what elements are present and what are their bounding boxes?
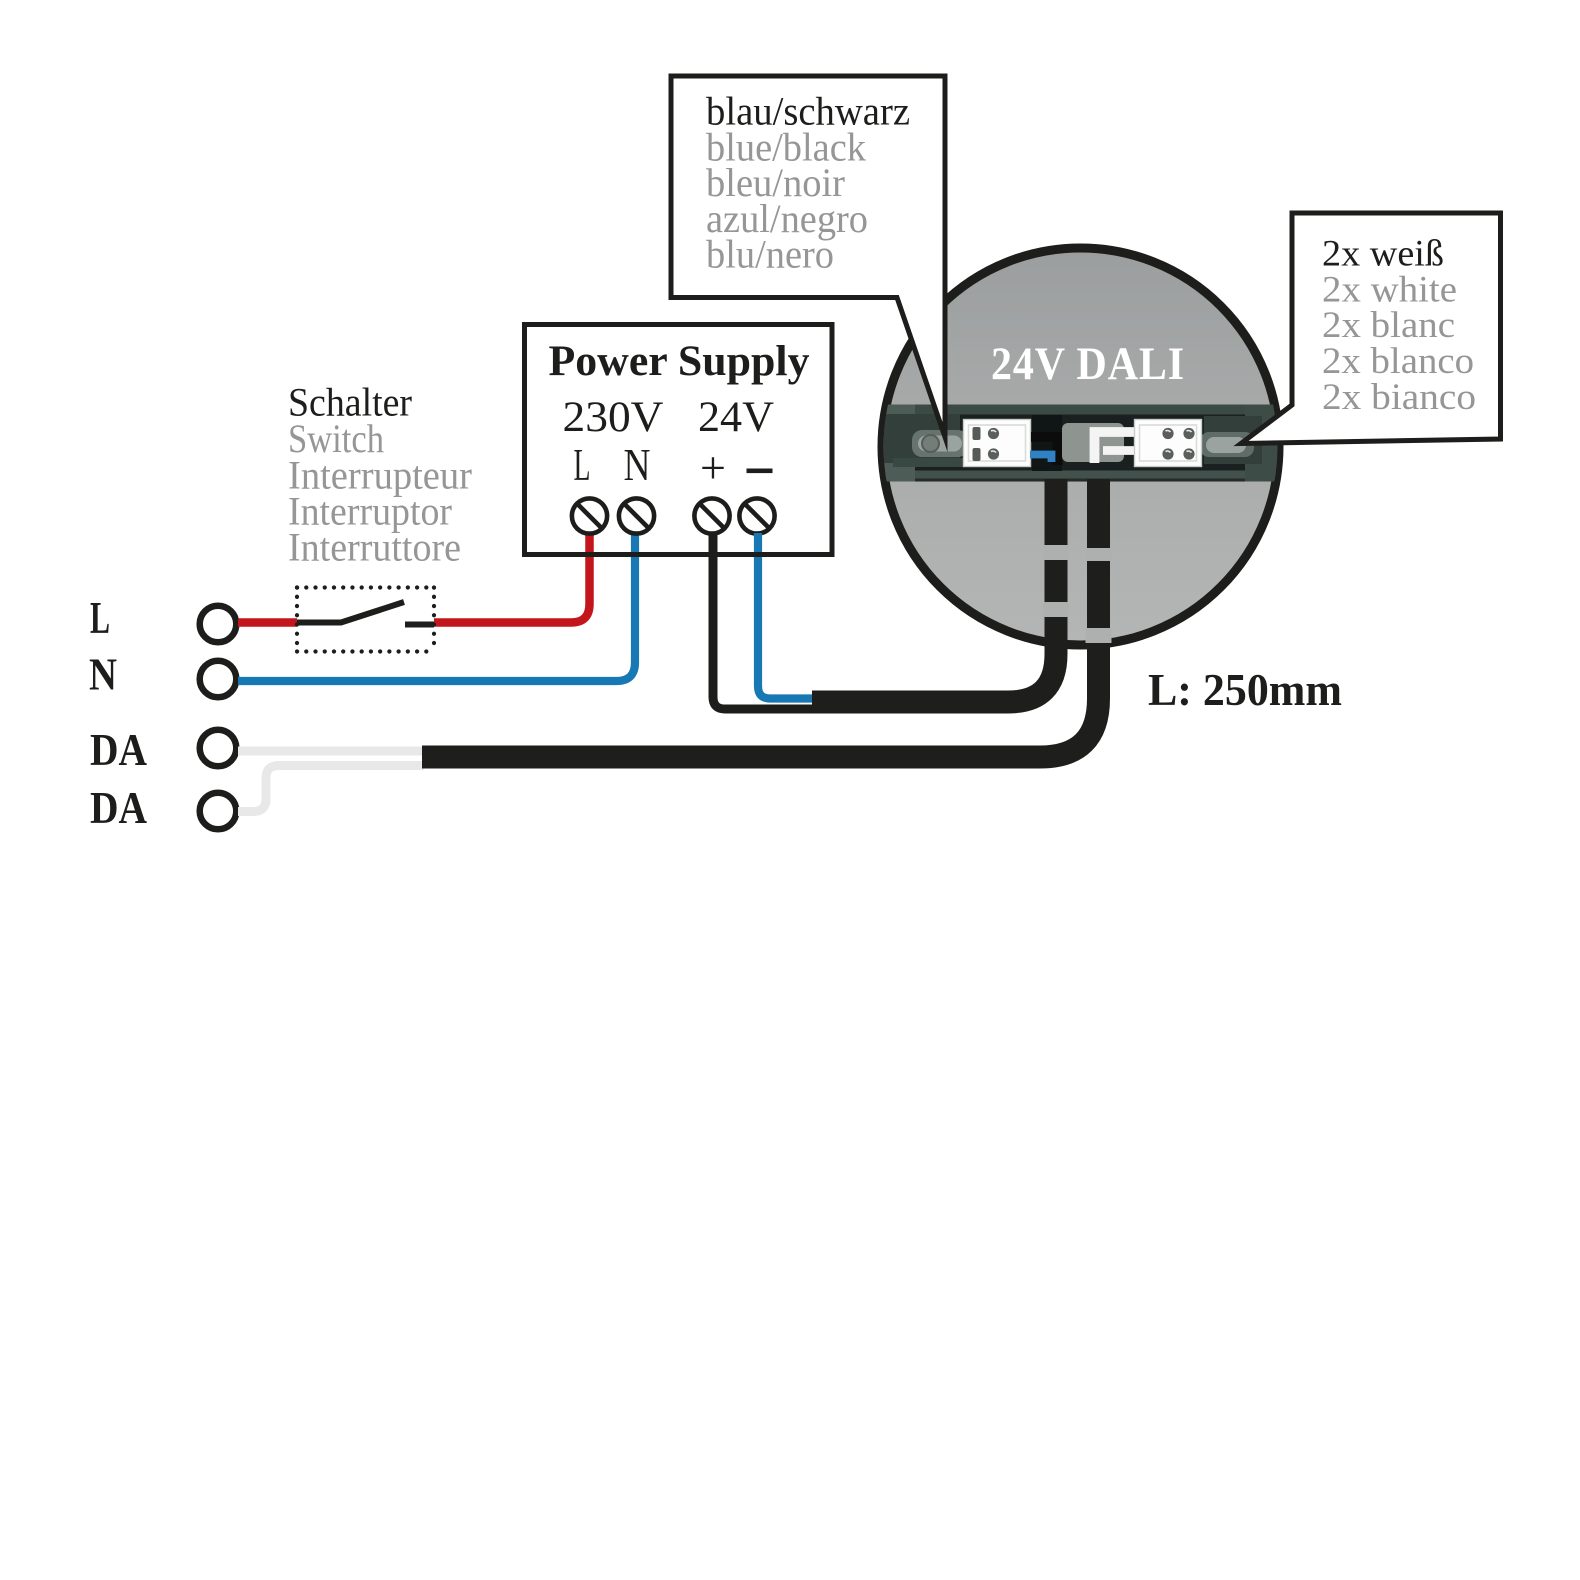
driver bar photo <box>877 405 1288 482</box>
svg-text:blu/nero: blu/nero <box>706 232 834 277</box>
wire red switch to power supply L <box>434 533 590 623</box>
rivet left <box>918 436 962 452</box>
screw terminal L <box>572 498 775 533</box>
svg-text:Power Supply: Power Supply <box>549 338 810 385</box>
svg-text:DA: DA <box>90 782 147 833</box>
terminal circle L <box>200 606 237 643</box>
connector left <box>964 420 1031 467</box>
wire stub blue on bar <box>1030 455 1052 463</box>
svg-text:L: 250mm: L: 250mm <box>1148 664 1342 715</box>
wire black from plus terminal <box>713 533 812 709</box>
svg-text:24V: 24V <box>698 394 774 441</box>
terminal circle DA1 <box>200 730 237 767</box>
cable gap marks <box>1043 545 1112 643</box>
svg-text:Interruttore: Interruttore <box>288 525 461 570</box>
power supply box border <box>525 325 833 555</box>
callout bubble 2x weiss <box>1241 213 1501 444</box>
svg-text:N: N <box>624 439 651 490</box>
wire red L to switch <box>238 618 297 627</box>
terminal circle N <box>200 661 237 698</box>
svg-text:2x bianco: 2x bianco <box>1322 377 1476 418</box>
switch S1 contacts <box>297 602 404 623</box>
svg-text:230V: 230V <box>563 394 664 441</box>
switch S1 dotted box <box>297 588 434 652</box>
connector right <box>1135 420 1202 467</box>
label minus <box>747 469 773 474</box>
svg-text:N: N <box>89 649 117 700</box>
screw terminal N <box>619 498 654 533</box>
svg-text:+: + <box>700 442 726 493</box>
cable thick lower <box>422 479 1099 757</box>
wire blue from minus terminal <box>758 533 812 699</box>
svg-text:24V DALI: 24V DALI <box>991 338 1185 390</box>
callout bubble blau/schwarz <box>671 76 945 437</box>
connector middle <box>1062 423 1124 462</box>
svg-text:L: L <box>574 439 591 490</box>
svg-text:DA: DA <box>90 724 147 775</box>
screw terminal minus <box>739 498 774 533</box>
power supply box fill <box>525 325 833 555</box>
rivet right <box>1206 437 1246 453</box>
wire stub black on bar <box>1031 437 1058 465</box>
switch label text block <box>288 380 472 570</box>
svg-text:L: L <box>90 592 110 643</box>
wire white DA2 <box>238 766 424 812</box>
wire white DA1 <box>238 747 424 756</box>
wire stub white on bar <box>1095 432 1135 463</box>
cable thick upper <box>812 479 1056 702</box>
svg-text:2x weiß: 2x weiß <box>1322 234 1444 275</box>
terminal circle DA2 <box>200 793 237 830</box>
screw terminal plus <box>694 498 729 533</box>
wire blue N to power supply N <box>238 533 635 681</box>
